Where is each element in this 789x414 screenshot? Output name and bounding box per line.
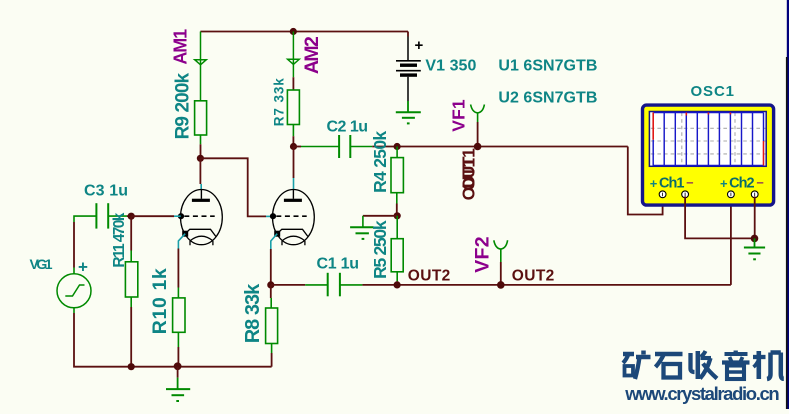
svg-text:Ch2: Ch2 (729, 176, 755, 192)
svg-text:VF1: VF1 (449, 99, 469, 132)
svg-text:R11 470k: R11 470k (111, 212, 128, 267)
wire R5 top pin (396, 216, 398, 239)
wire OUT2 riser to scope Ch2 (730, 197, 732, 285)
wire battery bottom pin (407, 77, 409, 101)
triode U2 envelope (273, 190, 315, 245)
svg-text:C3 1u: C3 1u (84, 183, 128, 200)
svg-text:U2 6SN7GTB: U2 6SN7GTB (498, 90, 597, 107)
node cathode2 junction (267, 281, 274, 288)
oscilloscope screen (649, 112, 766, 167)
node VF2 junction (497, 281, 505, 289)
wire VF1 stem (477, 122, 479, 147)
resistor R7 (287, 90, 299, 125)
ground bottom rail (166, 389, 190, 401)
battery V1 (396, 61, 421, 77)
wire C2 right (350, 146, 372, 148)
svg-text:–: – (757, 175, 764, 190)
wire C3 right (108, 215, 127, 217)
wire R5 bottom pin (396, 272, 398, 282)
triode U1 envelope (181, 190, 223, 245)
ammeter probe AM1 arrow (195, 32, 207, 101)
wire junction to C1 (271, 284, 305, 286)
node tube1 plate junction (197, 155, 204, 162)
oscilloscope blue trace (653, 113, 763, 166)
signal source VG1 ramp symbol (65, 285, 84, 296)
node grid1 junction (128, 213, 135, 220)
wire R7 bottom (292, 125, 294, 137)
resistor R10 (173, 298, 185, 332)
node R4 top junction (394, 143, 401, 150)
node R11 bottom junction (128, 363, 135, 370)
wire battery drop (407, 32, 409, 37)
wire AM2 to R7 (292, 77, 294, 90)
wire Ch1 minus to ground (685, 197, 754, 239)
node R4 R5 junction (394, 212, 401, 219)
node VF1 junction (474, 143, 482, 151)
wire U1 cathode pin (178, 234, 185, 249)
oscilloscope OSC1 body (643, 105, 774, 205)
svg-text:Ch1: Ch1 (659, 176, 685, 192)
signal source VG1 (57, 274, 91, 308)
wire R4 bottom pin (396, 193, 398, 204)
ground below battery (396, 112, 421, 123)
svg-text:+: + (720, 176, 728, 191)
svg-text:+: + (415, 37, 424, 54)
triode U1 cathode (185, 229, 215, 236)
wire VF2 stem (500, 262, 502, 285)
watermark logo crystalradio (623, 351, 784, 380)
svg-text:VG1: VG1 (30, 256, 53, 272)
svg-text:OUT1: OUT1 (458, 148, 478, 191)
svg-text:–: – (686, 175, 693, 190)
watermark char ji (753, 351, 784, 379)
svg-text:R7 33k: R7 33k (272, 78, 287, 126)
probe VF2 (494, 240, 508, 262)
wire tube2 plate pin (293, 147, 295, 179)
triode U2 heater (282, 236, 305, 241)
capacitor C3 (96, 203, 108, 228)
wire R4 top pin (396, 147, 398, 158)
right window border (787, 0, 789, 409)
svg-text:R8 33k: R8 33k (242, 283, 264, 343)
triode U1 cathode pin dot (182, 231, 188, 237)
resistor R11 (125, 262, 137, 297)
triode U2 grid (276, 215, 306, 217)
capacitor C1 (328, 273, 340, 297)
resistor R8 (266, 308, 278, 344)
triode U1 grid (184, 215, 214, 217)
watermark char yin (722, 351, 750, 380)
watermark char kuang (623, 351, 651, 380)
wire R8 top pin (270, 285, 272, 298)
probe VF1 (471, 105, 485, 123)
triode U1 grid pin dot (178, 213, 184, 219)
svg-text:R5 250k: R5 250k (370, 220, 390, 279)
wire junction to tube1 grid (131, 215, 174, 217)
wire top supply rail (200, 31, 408, 33)
resistor R9 (195, 101, 207, 135)
node top rail junction (290, 28, 297, 35)
wire tube1 plate pin (199, 158, 201, 184)
wire R11 top pin (130, 216, 132, 250)
oscilloscope graticule (651, 113, 766, 166)
watermark char shou (691, 351, 718, 379)
wire U2 cathode pin (271, 234, 277, 249)
svg-text:C1 1u: C1 1u (317, 255, 360, 272)
node scope ground junction (751, 235, 759, 243)
wire R8 bottom pin (271, 344, 273, 354)
svg-text:C2 1u: C2 1u (327, 119, 369, 136)
wire R10 bottom pin (177, 332, 179, 347)
wire Ch2 minus to ground (754, 197, 756, 239)
oscilloscope red trace (653, 113, 763, 166)
node R5 bottom junction (394, 281, 401, 288)
resistor R4 (391, 158, 403, 193)
svg-text:AM1: AM1 (171, 29, 191, 65)
node tube2 plate junction (290, 143, 297, 150)
svg-text:V1 350: V1 350 (425, 57, 476, 74)
wire R11 bottom pin (130, 297, 132, 307)
svg-text:R10 1k: R10 1k (149, 268, 171, 334)
svg-text:R4 250k: R4 250k (370, 131, 390, 193)
wire plate junction to tube2 grid (200, 158, 266, 216)
svg-text:www.crystalradio.cn: www.crystalradio.cn (624, 383, 780, 404)
triode U2 cathode (277, 229, 307, 236)
wire corner to C3 (74, 216, 96, 222)
resistor R5 (391, 239, 403, 272)
triode U2 plate (292, 190, 294, 199)
ammeter probe AM2 arrow (288, 32, 300, 78)
svg-text:U1 6SN7GTB: U1 6SN7GTB (498, 57, 597, 74)
triode U2 cathode pin dot (274, 231, 280, 237)
triode U2 grid pin dot (270, 213, 276, 219)
ground at scope (744, 248, 765, 260)
svg-text:AM2: AM2 (301, 36, 323, 74)
watermark char shi (655, 354, 683, 378)
svg-text:+: + (78, 258, 88, 277)
wire C1 right (340, 284, 363, 286)
triode U1 heater (190, 236, 213, 241)
wire R9 bottom (200, 135, 202, 144)
triode U1 plate (200, 190, 202, 199)
svg-text:R9 200k: R9 200k (173, 72, 194, 139)
oscilloscope terminal Ch1 plus (659, 191, 758, 198)
wire bottom rail (74, 313, 272, 367)
svg-text:OUT2: OUT2 (408, 268, 451, 285)
svg-text:+: + (650, 176, 658, 191)
svg-text:OSC1: OSC1 (691, 83, 735, 100)
wire scope ground stem (754, 238, 756, 247)
wire tube2 junction to C2 (294, 146, 302, 148)
capacitor C2 (339, 135, 350, 158)
svg-text:VF2: VF2 (472, 236, 494, 273)
wire OUT1 to scope Ch1 (628, 147, 663, 215)
wire VG1 bottom pin (73, 308, 75, 313)
wire VG1 top pin (73, 268, 75, 274)
node ground junction (174, 362, 182, 370)
svg-text:OUT2: OUT2 (512, 268, 555, 285)
ground at R4 R5 divider (350, 227, 374, 239)
wire junction to ground stem (363, 215, 397, 217)
wire ground stem (177, 367, 179, 378)
